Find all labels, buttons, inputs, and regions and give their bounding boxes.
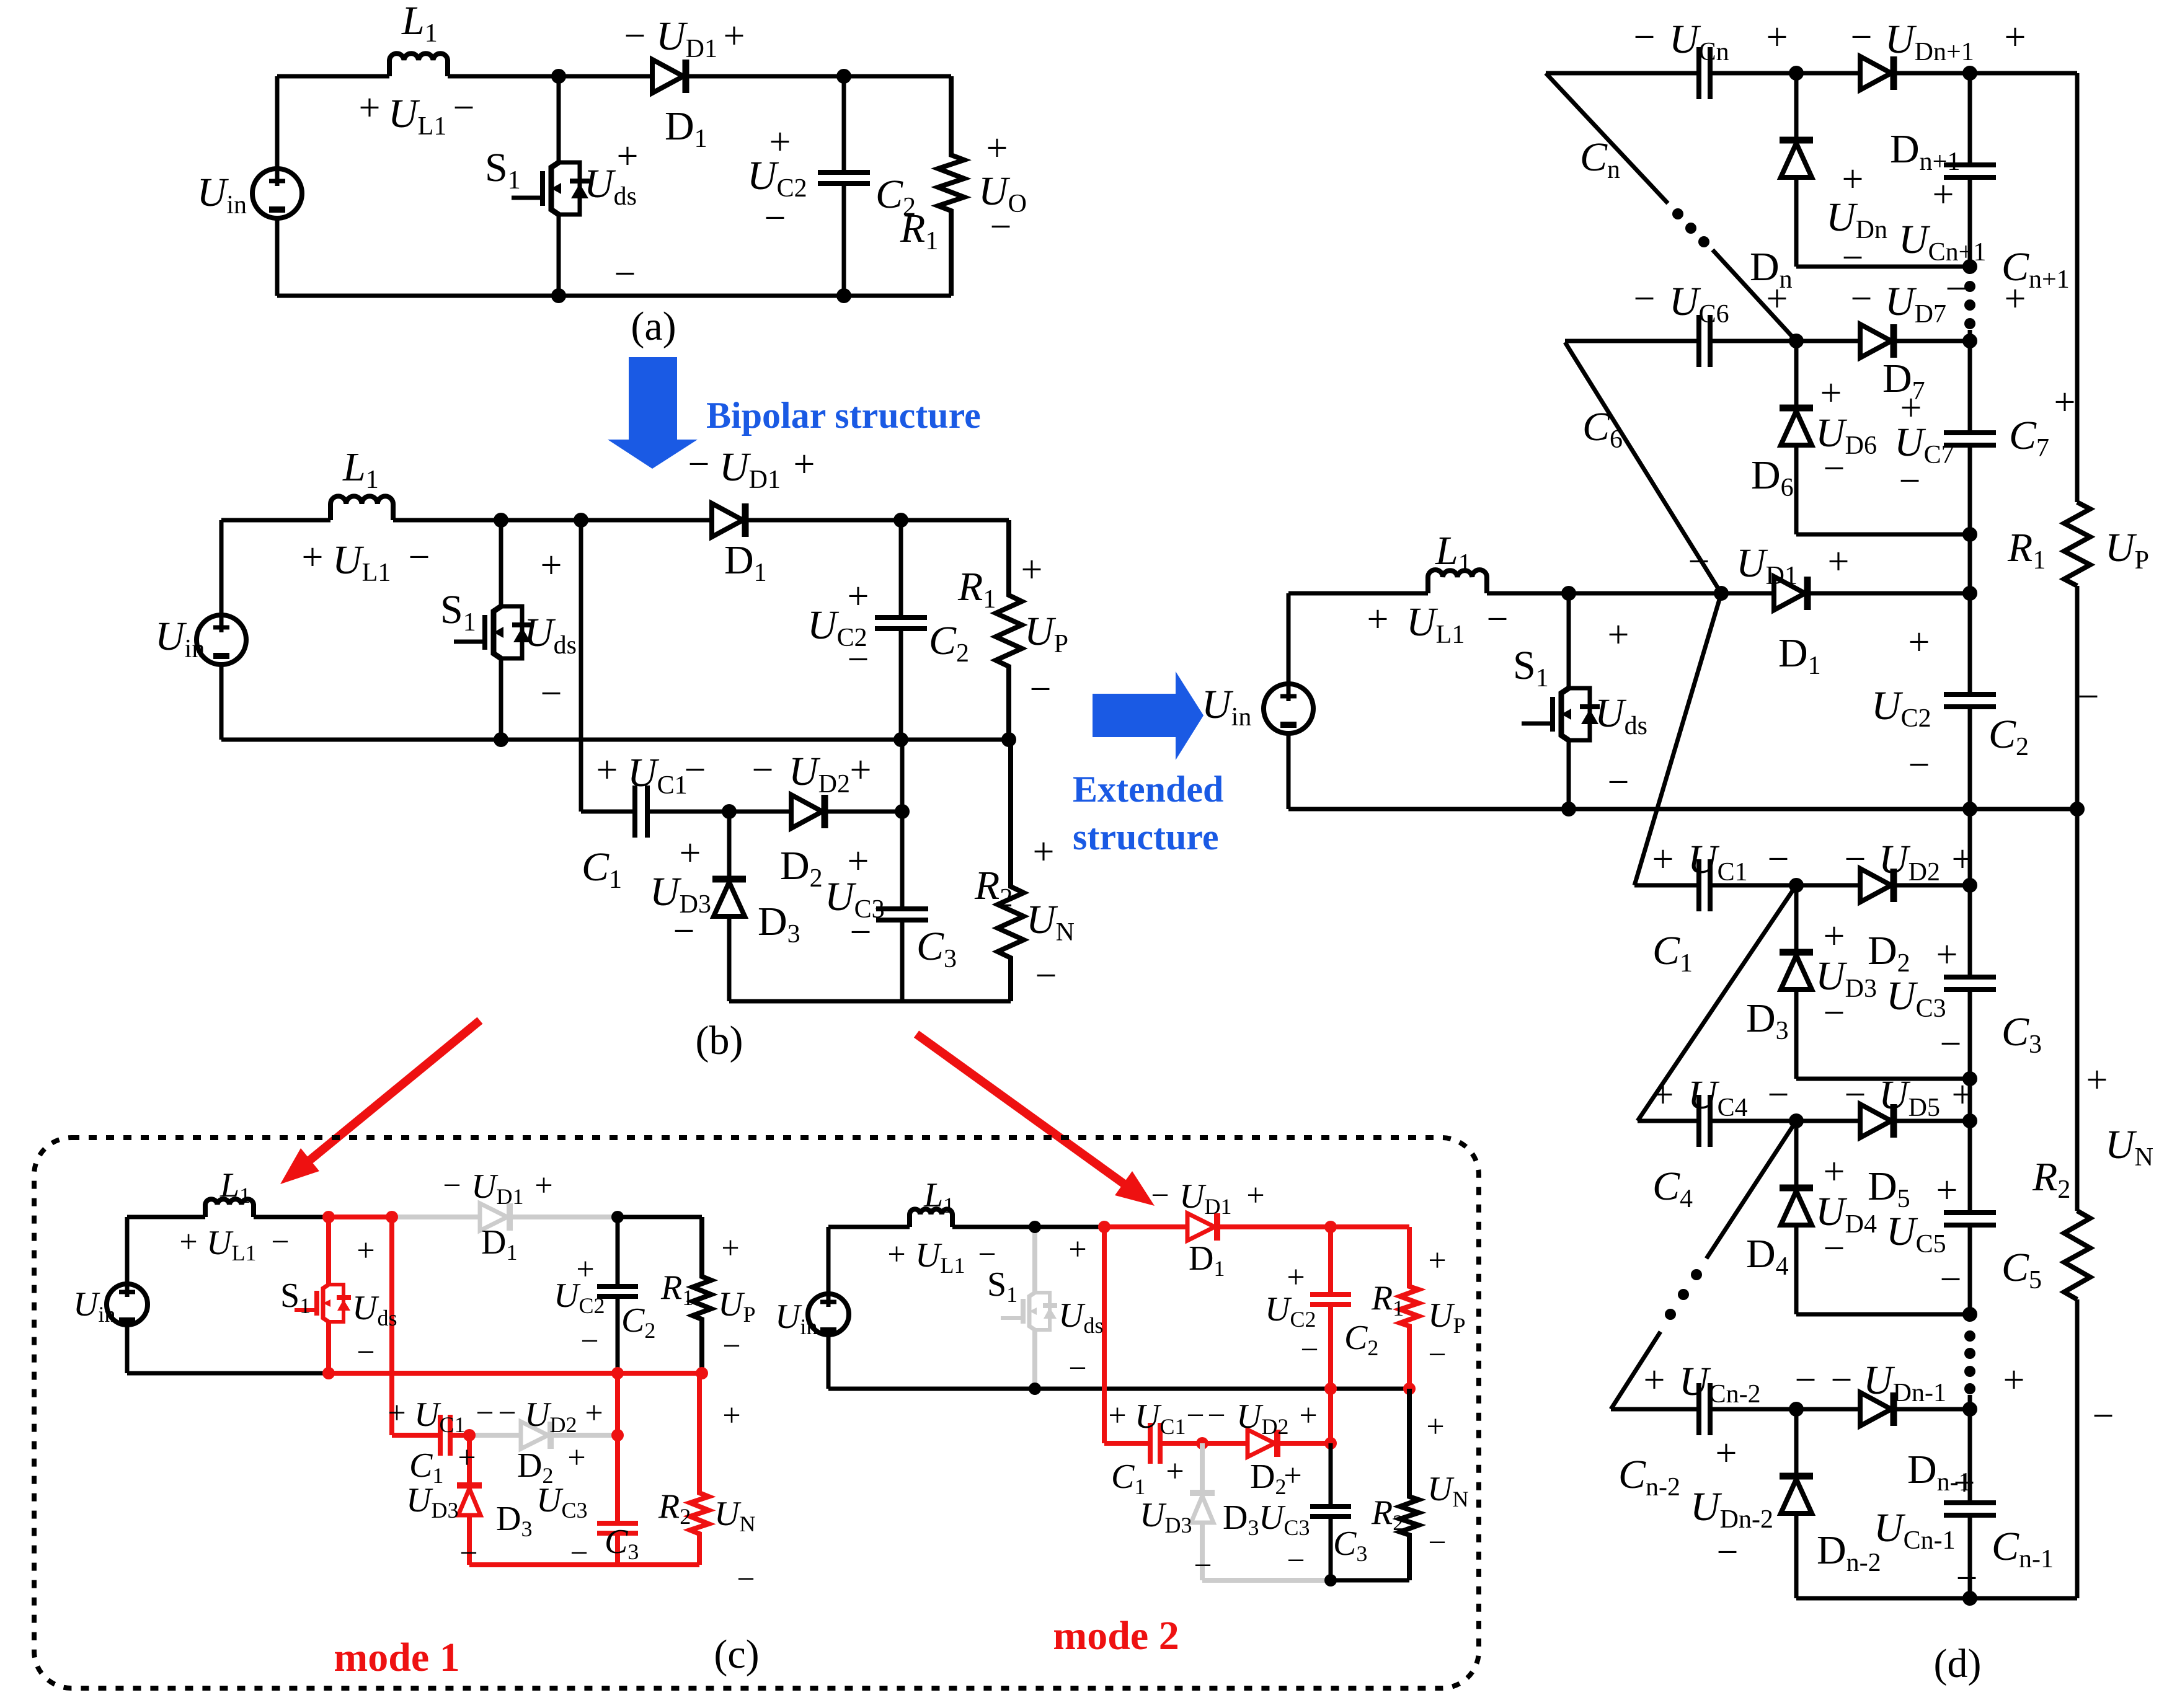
node Cn+1 bottom: [1962, 259, 1977, 274]
plus of UC6: [1767, 278, 1788, 320]
label UD3: [650, 869, 711, 919]
label C2: [876, 172, 916, 221]
label UC5 (d): [1886, 1209, 1946, 1259]
label Uin (mode1): [73, 1285, 115, 1327]
minus of UD1 (d): [1688, 541, 1710, 583]
wire left vertical upper (mode1): [125, 1217, 130, 1285]
minus of UC7: [1899, 460, 1921, 502]
node C1row mid: [1789, 878, 1804, 893]
wire S1 source lead (mode2, off): [1032, 1330, 1037, 1389]
wire C4row right cap lower: [1968, 1225, 1972, 1314]
node R1 bottom (mode1): [696, 1367, 708, 1379]
label L1 (mode2): [923, 1176, 954, 1218]
resistor R2 (mode2): [1400, 1389, 1419, 1580]
diode D6 (C6row): [1780, 408, 1813, 445]
svg-text:−: −: [453, 87, 475, 129]
svg-text:−: −: [1795, 1359, 1817, 1401]
wire left vertical lower (mode1): [125, 1324, 130, 1373]
minus of UD7: [1851, 278, 1873, 320]
wire Cn-1 upper: [1968, 1409, 1972, 1503]
wire negative bus (mode1, active): [469, 1562, 699, 1567]
minus of UC5 (d): [1940, 1259, 1962, 1301]
svg-text:+: +: [887, 1237, 905, 1272]
wire C2 branch lower (mode2, active): [1328, 1305, 1333, 1389]
plus of UP (mode1): [721, 1231, 739, 1266]
node S1 source: [551, 288, 566, 303]
label D4 (d): [1746, 1231, 1789, 1281]
wire bottom bus active (mode1): [329, 1371, 702, 1376]
svg-text:+: +: [534, 1168, 552, 1203]
wire C1row vert diode lower lead: [1794, 989, 1799, 1079]
wire bottom bus left (mode1): [127, 1371, 329, 1376]
resistor R1: [996, 520, 1022, 740]
wire D2 to C3 node (mode2, active): [1277, 1441, 1331, 1446]
wire top-left from source to L1: [277, 74, 389, 79]
wire S1 node to C1 tap node: [501, 518, 581, 523]
minus of UDn+1: [1851, 16, 1873, 58]
node R1 bottom (mode2): [1403, 1383, 1416, 1395]
resistor R2: [998, 740, 1024, 1001]
label UL1 (mode1): [206, 1224, 256, 1265]
svg-text:+: +: [2003, 1359, 2025, 1401]
minus of UC2 (mode2): [1300, 1332, 1318, 1368]
capacitor Cn-1: [1944, 1503, 1996, 1515]
resistor R2 (mode1, active): [690, 1373, 709, 1565]
transistor S1 (mode2, off): [1001, 1293, 1057, 1330]
minus of UDn-2: [1717, 1531, 1739, 1573]
minus of UDn: [1842, 237, 1864, 279]
wire Dn-1 to right node: [1894, 1407, 1970, 1412]
label D5 (d): [1868, 1164, 1910, 1213]
diagonal Cn-2-left to C4 mid (lower): [1611, 1332, 1660, 1409]
wire C1row cap to mid node: [1712, 883, 1860, 888]
svg-text:−: −: [850, 911, 872, 954]
plus of UCn-2: [1644, 1359, 1665, 1401]
node C4row cell bottom: [1962, 1307, 1977, 1322]
svg-text:+: +: [2005, 16, 2026, 58]
svg-text:−: −: [1899, 460, 1921, 502]
svg-text:+: +: [617, 135, 639, 177]
label UL1: [332, 538, 391, 587]
plus of UO: [986, 127, 1008, 169]
label UC2: [807, 603, 867, 652]
svg-text:+: +: [1952, 1074, 1974, 1116]
node S1 source: [494, 732, 508, 747]
label C4 (d): [1652, 1164, 1693, 1213]
svg-text:−: −: [1287, 1543, 1305, 1578]
minus of UC3 (mode1): [570, 1536, 588, 1571]
svg-text:−: −: [1845, 1074, 1866, 1116]
node C2 top (d): [1962, 586, 1977, 601]
wire S1 node to C1 tap (mode1, active): [329, 1215, 392, 1219]
wire C4row cell bottom: [1796, 1312, 1970, 1317]
wire D3 lower lead (mode1, active): [467, 1515, 472, 1565]
diode D2: [791, 795, 825, 828]
plus of UP (d): [2054, 381, 2076, 423]
svg-text:−: −: [1207, 1398, 1225, 1433]
node C2 bottom (mode1): [611, 1367, 624, 1379]
wire bottom bus: [277, 294, 951, 298]
label R1: [957, 564, 996, 614]
label C1 (d): [1652, 928, 1693, 978]
label UD2 (mode1): [525, 1396, 577, 1437]
wire right bus mid (d): [2075, 586, 2080, 1211]
svg-text:+: +: [1426, 1409, 1444, 1445]
ellipsis dots on Cn-2 diagonal: [1665, 1269, 1702, 1320]
label UC6: [1669, 279, 1729, 329]
svg-text:−: −: [1487, 598, 1509, 640]
svg-text:−: −: [1717, 1531, 1739, 1573]
wire top row to right bus: [1970, 71, 2077, 76]
label UDn+1: [1885, 17, 1974, 66]
svg-text:−: −: [1909, 744, 1930, 786]
label Bipolar structure: [706, 395, 981, 436]
svg-text:+: +: [1283, 1458, 1301, 1493]
wire C1 tap to D1 (mode1, off): [392, 1215, 480, 1219]
wire C7 cell bottom to D1 node col: [1968, 534, 1972, 593]
svg-text:−: −: [1831, 1359, 1853, 1401]
svg-text:+: +: [1936, 1169, 1958, 1211]
minus of Uds (mode1): [357, 1335, 375, 1370]
wire Dn-2 upper lead: [1794, 1409, 1799, 1476]
svg-text:+: +: [541, 544, 562, 586]
svg-text:Bipolar structure: Bipolar structure: [706, 395, 981, 436]
svg-text:+: +: [986, 127, 1008, 169]
capacitor C2 (mode2, active): [1310, 1294, 1351, 1304]
label D1: [665, 104, 707, 153]
minus of UO: [990, 206, 1012, 248]
minus of UP (mode1): [722, 1329, 740, 1364]
wire C1 to D3 node: [649, 810, 791, 814]
label UC2 (d): [1871, 683, 1931, 733]
label UD2: [789, 749, 850, 799]
plus of UC2 (mode1): [576, 1252, 594, 1287]
label D2: [780, 843, 823, 893]
wire Dn upper lead: [1794, 73, 1799, 140]
ellipsis dots below C5 cell: [1964, 1330, 1975, 1394]
svg-text:−: −: [1068, 1351, 1086, 1386]
svg-text:−: −: [459, 1536, 477, 1571]
wire C2 branch lower (mode1): [616, 1297, 620, 1373]
svg-text:−: −: [1946, 268, 1967, 310]
node C1 tap (mode1): [386, 1211, 398, 1223]
wire D3 lower lead: [727, 916, 732, 1001]
plus of UP: [1021, 549, 1043, 591]
diode D3 (C1row): [1780, 952, 1813, 989]
svg-text:+: +: [1936, 934, 1958, 976]
minus of Uds: [614, 253, 636, 295]
wire C2 lower (d): [1968, 707, 1972, 809]
svg-text:+: +: [2005, 278, 2026, 320]
capacitor C2 (mode1): [597, 1286, 638, 1296]
wire C2 node to right corner: [844, 74, 951, 79]
capacitor C2 (d): [1944, 694, 1996, 707]
minus of UD6: [1824, 448, 1845, 490]
svg-text:Extended: Extended: [1073, 769, 1223, 810]
capacitor C3: [876, 909, 928, 920]
svg-text:+: +: [567, 1440, 585, 1476]
wire C4row right cap upper: [1968, 1121, 1972, 1213]
label D3 (mode2): [1223, 1498, 1259, 1540]
svg-text:−: −: [1845, 838, 1866, 880]
voltage source Uin (mode2): [808, 1294, 849, 1335]
transistor S1 (MOSFET with body diode): [512, 162, 590, 215]
plus of UC3 (mode2): [1283, 1458, 1301, 1493]
svg-text:−: −: [1851, 278, 1873, 320]
minus of UC3 (d): [1940, 1023, 1962, 1065]
diode D3 (mode2, off): [1190, 1493, 1215, 1523]
label R1 (mode1): [660, 1268, 693, 1310]
wire C1 tap to D1 (mode2, active): [1104, 1224, 1187, 1229]
label C2: [929, 618, 969, 668]
diode D1: [652, 60, 686, 93]
label Uin: [155, 614, 205, 663]
wire ground bus (d): [1288, 807, 2077, 812]
svg-text:+: +: [1824, 915, 1845, 957]
node C2 top (mode2): [1324, 1221, 1337, 1233]
wire left vertical upper (mode2): [827, 1227, 831, 1294]
node Cn-2 right: [1962, 1402, 1977, 1417]
label Uds (d): [1595, 691, 1647, 740]
wire top-left to L1 (d): [1288, 591, 1428, 596]
label Dn+1: [1890, 126, 1960, 176]
label UD5 (d): [1879, 1073, 1940, 1122]
wire Cn cap to mid node: [1712, 71, 1860, 76]
node C3 top (mode2): [1324, 1437, 1337, 1449]
svg-text:−: −: [1608, 761, 1629, 803]
minus of UCn: [1634, 16, 1656, 58]
svg-text:+: +: [359, 87, 381, 129]
svg-text:+: +: [724, 15, 745, 57]
wire top-left to L1 (mode2): [828, 1225, 910, 1229]
label D3 (d): [1746, 996, 1789, 1045]
capacitor C3 (mode2): [1310, 1507, 1351, 1516]
label L1 (d): [1435, 528, 1471, 578]
svg-text:−: −: [1030, 668, 1052, 710]
resistor R1 (mode1): [693, 1217, 711, 1373]
minus of UC1: [685, 749, 706, 791]
diode D1: [712, 503, 745, 537]
minus of UN (mode2): [1428, 1525, 1446, 1560]
wire D2 to C3 (mode1, off): [551, 1433, 618, 1438]
plus of UCn-1: [1954, 1462, 1975, 1504]
label R2 (mode1): [658, 1487, 691, 1529]
node C1row cell bottom: [1962, 1071, 1977, 1086]
capacitor C1 (mode1, active): [440, 1415, 450, 1456]
plus of UDn-2: [1716, 1432, 1737, 1474]
svg-text:−: −: [1035, 955, 1057, 997]
minus of UCn-1: [1956, 1557, 1978, 1600]
wire C1 tap to D1 anode: [581, 518, 712, 523]
dashed box around (c): [34, 1138, 1479, 1688]
capacitor Cn: [1699, 47, 1710, 99]
label D3: [758, 899, 800, 949]
diode D2 (mode1, off): [521, 1422, 551, 1449]
wire C6row right cap lower: [1968, 445, 1972, 534]
node C1 tap: [574, 513, 588, 528]
svg-text:−: −: [570, 1536, 588, 1571]
label C2 (mode2): [1344, 1319, 1378, 1360]
svg-text:−: −: [541, 673, 562, 715]
wire Cn row left: [1546, 71, 1697, 76]
label C3 (mode1): [605, 1523, 639, 1564]
label S1: [485, 145, 521, 195]
minus of UD1 (mode1): [443, 1168, 461, 1203]
plus of UC2 (mode2): [1287, 1260, 1305, 1295]
plus of UL1 (mode1): [179, 1224, 197, 1260]
plus of UC7: [1900, 387, 1922, 429]
svg-text:−: −: [673, 910, 695, 952]
svg-text:+: +: [1246, 1178, 1264, 1213]
wire left vertical lower (source -): [275, 218, 280, 296]
plus of UD1: [724, 15, 745, 57]
svg-text:−: −: [409, 536, 430, 578]
label UN (mode2): [1427, 1470, 1468, 1511]
wire C3 cell bottom to C4 right node: [1968, 1079, 1972, 1121]
plus of UDn: [1842, 158, 1864, 200]
node D3 junction (mode2): [1196, 1437, 1208, 1449]
wire Cn+1 upper: [1968, 73, 1972, 165]
label R1: [900, 206, 938, 255]
node R1 bottom R2 top: [1001, 732, 1016, 747]
svg-text:−: −: [498, 1396, 516, 1431]
node S1 source (mode1): [322, 1367, 335, 1379]
wire C6row cell bottom: [1796, 533, 1970, 537]
label UD2 (mode2): [1236, 1397, 1288, 1439]
label Cn-1: [1992, 1524, 2054, 1573]
wire bottom bus (d): [1796, 1596, 2077, 1601]
wire top-left to L1 (mode1): [127, 1215, 205, 1219]
svg-text:+: +: [794, 443, 815, 485]
plus of UD1: [794, 443, 815, 485]
capacitor C6row right: [1944, 433, 1996, 445]
node C1 tap (mode2): [1098, 1221, 1111, 1233]
wire S1 source lead (d): [1567, 740, 1571, 809]
transistor S1 (MOSFET with body diode): [454, 606, 532, 658]
label UD1: [719, 445, 781, 494]
wire C4row row left: [1638, 1119, 1697, 1123]
minus of UL1: [453, 87, 475, 129]
voltage source Uin: [197, 615, 246, 665]
wire C3 lower (mode1, active): [615, 1534, 620, 1565]
plus of UD2: [850, 749, 872, 791]
node C2 top: [836, 69, 851, 84]
wire C6row vert diode upper lead: [1794, 341, 1799, 408]
label S1 (mode1): [280, 1277, 311, 1318]
plus of UC3 (mode1): [567, 1440, 585, 1476]
wire C1 to D3 node (mode2, active): [1162, 1441, 1248, 1446]
capacitor C6 (C6row): [1699, 315, 1710, 367]
label UL1 (d): [1406, 600, 1465, 649]
minus of UC1a (mode1): [476, 1396, 494, 1431]
plus of UC1 (mode2): [1108, 1398, 1126, 1433]
node D1 anode (d): [1714, 586, 1729, 601]
label mode 1: [334, 1635, 459, 1680]
svg-text:+: +: [388, 1396, 406, 1431]
wire C2 branch upper: [899, 520, 903, 617]
svg-text:mode 1: mode 1: [334, 1635, 459, 1680]
wire C1row row left: [1634, 883, 1697, 888]
plus of UD1 (d): [1828, 541, 1850, 583]
resistor R1 (d): [2064, 502, 2090, 586]
wire Cn-1 lower: [1968, 1515, 1972, 1598]
label UDn-2: [1690, 1484, 1773, 1534]
plus of UC3: [848, 840, 869, 882]
svg-text:(d): (d): [1934, 1641, 1982, 1686]
wire L1 to S1 drain node: [448, 74, 559, 79]
label UD1: [656, 14, 717, 63]
wire col below dots to Dn-1 node: [1968, 1395, 1972, 1409]
svg-text:−: −: [1956, 1557, 1978, 1600]
diagonal Cn-2-left to C4 mid (upper): [1706, 1121, 1796, 1259]
label UN (d): [2105, 1122, 2153, 1172]
diode D3: [712, 879, 746, 916]
svg-text:+: +: [1299, 1398, 1317, 1433]
wire Cn cell bottom: [1796, 265, 1970, 269]
svg-text:+: +: [1166, 1454, 1184, 1489]
node C2 top: [893, 513, 908, 528]
minus of UC4 (d): [1768, 1074, 1789, 1116]
label R2: [974, 863, 1013, 913]
voltage source Uin (mode1): [107, 1284, 148, 1325]
node Cn-1 bottom: [1962, 1591, 1977, 1606]
svg-text:−: −: [1688, 541, 1710, 583]
node Cn-2 mid: [1789, 1402, 1804, 1417]
plus of Uds (mode2): [1068, 1232, 1086, 1267]
svg-text:−: −: [1851, 16, 1873, 58]
svg-text:+: +: [585, 1396, 603, 1431]
wire left vertical lower (d): [1287, 733, 1291, 809]
plus of Uds: [617, 135, 639, 177]
svg-text:+: +: [302, 536, 324, 578]
minus of UD1: [688, 443, 710, 485]
wire C1row cell bottom: [1796, 1077, 1970, 1081]
minus of UCn+1: [1946, 268, 1967, 310]
wire C1 row left (mode1, active): [392, 1433, 438, 1438]
plus of UD6: [1820, 372, 1842, 414]
plus of UC2 (d): [1909, 621, 1930, 663]
capacitor C4 (C4row): [1699, 1095, 1710, 1147]
minus of UD4 (d): [1824, 1228, 1845, 1270]
svg-text:−: −: [1842, 237, 1864, 279]
node ground right (d): [2070, 802, 2085, 816]
minus of UD3: [673, 910, 695, 952]
label UD6: [1815, 410, 1877, 460]
node C2 bottom (mode2): [1324, 1383, 1337, 1395]
wire L1 to S1 node (d): [1487, 591, 1569, 596]
label UCn: [1669, 17, 1729, 66]
label UP: [1024, 609, 1068, 658]
label UL1: [388, 91, 446, 141]
node C1row right: [1962, 878, 1977, 893]
minus of UD3 (mode1): [459, 1536, 477, 1571]
caption (a): [631, 304, 676, 349]
svg-text:−: −: [443, 1168, 461, 1203]
wire left vertical lower (mode2): [827, 1334, 831, 1389]
wire C3 vertical from bottom bus: [900, 740, 905, 908]
svg-text:−: −: [848, 639, 869, 681]
wire D1 anode to triangle (d): [1721, 591, 1774, 596]
diode Dn-2: [1780, 1476, 1813, 1513]
node S1 source (mode2): [1029, 1383, 1041, 1395]
minus of UL1 (mode2): [978, 1237, 996, 1272]
minus of UC3: [850, 911, 872, 954]
label C1 (mode2): [1111, 1458, 1145, 1499]
plus of UD3: [680, 832, 701, 874]
diagonal Cn-left to C6 mid (lower): [1713, 250, 1796, 341]
wire Cn-2 cap to mid node: [1712, 1407, 1860, 1412]
node Cn right: [1962, 66, 1977, 81]
